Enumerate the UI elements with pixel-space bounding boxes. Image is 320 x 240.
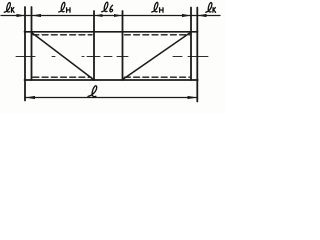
middle-right vertical <box>122 11 124 80</box>
left panel diagonal <box>32 33 93 80</box>
left outer vertical / extension line <box>24 7 26 101</box>
bottom arrow at x=25 pointing left <box>25 96 35 99</box>
label lk right: subscript k <box>213 8 216 13</box>
middle-left vertical <box>93 11 95 80</box>
right outer vertical / extension line <box>196 8 198 102</box>
label lk top-left: script l <box>4 3 14 13</box>
right panel diagonal <box>123 32 191 79</box>
arrow at x=25 pointing right <box>17 14 26 17</box>
top dimension line <box>1 15 220 17</box>
label ln top-left-middle: script l <box>59 2 70 12</box>
label ln: subscript n <box>67 8 70 13</box>
label ln right: subscript n <box>160 8 163 13</box>
label lk top-left: subscript k <box>11 8 14 13</box>
dashed nominal line bottom, left panel <box>33 76 91 78</box>
label ln top-right-middle: script l <box>152 2 163 12</box>
arrow at x=197.3 pointing left <box>197 14 206 17</box>
bottom dimension line <box>25 97 198 99</box>
label l bottom: script l <box>88 86 97 97</box>
arrow at x=31.5 pointing left <box>32 14 42 17</box>
dashed nominal line top, left panel <box>33 34 92 36</box>
bottom arrow at x=197.5 pointing right <box>188 96 198 99</box>
panel bottom edge <box>25 79 198 81</box>
right inner vertical <box>190 8 192 81</box>
arrow at x=94 pointing left <box>94 14 103 17</box>
arrow at x=191 pointing right <box>182 14 191 17</box>
dashed nominal line top, right panel <box>125 34 190 36</box>
label lv top-middle: script l <box>102 2 113 12</box>
centerline (dash-dot axis at mid-height) <box>16 56 208 58</box>
label lk top-right: script l <box>206 3 216 13</box>
dashed nominal line bottom, right panel <box>125 76 190 78</box>
arrow at x=122.5 pointing right <box>114 14 123 17</box>
left inner vertical <box>31 7 33 80</box>
panel top edge <box>25 31 198 33</box>
label lv: subscript v <box>110 5 113 12</box>
